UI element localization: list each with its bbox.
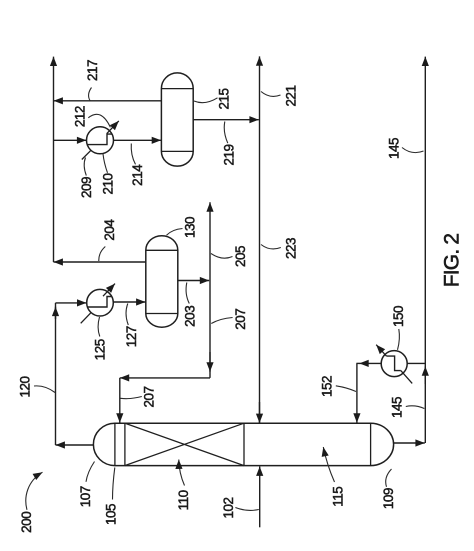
wire 219 vessel 215 outlet: [193, 119, 259, 121]
wire 125 inlet: [56, 302, 87, 304]
wire 221/223 riser: [259, 56, 261, 422]
drum vessel 105/115: [93, 423, 393, 465]
leader 105: [113, 468, 115, 500]
wire 217 horizontal: [54, 100, 162, 102]
svg-text:215: 215: [217, 88, 232, 109]
svg-text:209: 209: [79, 177, 94, 198]
leader 204: [99, 247, 106, 262]
leader arrow 115: [323, 447, 334, 482]
arrow 207 down on riser: [209, 352, 211, 372]
svg-text:150: 150: [391, 306, 406, 327]
U150 SE diagonal stub: [401, 371, 412, 384]
svg-text:125: 125: [93, 339, 108, 360]
svg-text:FIG. 2: FIG. 2: [441, 234, 464, 288]
leader 203: [186, 283, 189, 304]
wire 120 drum to corner: [56, 444, 94, 446]
leader 215: [194, 98, 218, 103]
vessel 215: [161, 73, 193, 166]
leader 221: [261, 92, 281, 97]
leader 130: [167, 229, 183, 236]
packing X section 110: [125, 423, 244, 465]
wire 212 inlet: [54, 139, 87, 141]
svg-text:115: 115: [331, 487, 346, 507]
svg-text:145: 145: [387, 138, 402, 159]
leader 205: [211, 254, 233, 259]
wire 145 riser: [424, 57, 426, 443]
wire U150 right branch: [407, 362, 425, 364]
U150 NW diagonal arrow: [376, 345, 386, 356]
arrow 120 up on riser: [55, 307, 57, 319]
svg-text:214: 214: [130, 164, 145, 186]
svg-text:221: 221: [284, 85, 299, 106]
leader 145 bottom: [406, 406, 425, 409]
U212 internal step: [87, 134, 112, 145]
svg-text:145: 145: [390, 397, 405, 418]
leader 212: [88, 114, 110, 127]
leader 102: [235, 508, 258, 511]
wire 214 outlet of U212: [114, 139, 162, 141]
heat exchanger U125 circle: [87, 289, 114, 316]
leader 150: [398, 329, 400, 350]
wire 207 horizontal: [120, 377, 210, 379]
wire 127 outlet of U125: [113, 301, 145, 303]
leader arrow 200: [26, 472, 43, 510]
leader 152: [336, 386, 356, 392]
svg-text:212: 212: [73, 106, 88, 127]
leader 209: [84, 158, 86, 176]
wire 102 feed: [259, 467, 261, 528]
leader arrow 110: [179, 460, 185, 486]
svg-text:130: 130: [183, 217, 198, 238]
leader 210: [103, 154, 108, 173]
svg-text:207: 207: [233, 309, 248, 330]
wire 203 vessel 130 outlet: [178, 280, 209, 282]
svg-text:223: 223: [284, 238, 299, 259]
svg-text:217: 217: [85, 60, 100, 81]
svg-text:205: 205: [233, 246, 248, 267]
U150 internal step: [386, 356, 400, 371]
svg-text:120: 120: [18, 376, 33, 397]
vessel 130: [146, 236, 178, 328]
svg-text:107: 107: [78, 486, 93, 507]
svg-text:210: 210: [101, 173, 116, 194]
wire 120 riser: [55, 303, 57, 445]
wire 152 drop into drum: [356, 363, 358, 422]
arrow 145 up on riser: [424, 366, 426, 384]
leader 214: [131, 144, 135, 165]
wire 207 drop into drum: [119, 378, 121, 423]
U212 NE diagonal arrow: [107, 121, 119, 134]
leader 127: [126, 304, 128, 326]
svg-text:204: 204: [102, 219, 117, 241]
svg-text:102: 102: [221, 497, 236, 518]
heat exchanger U212 circle: [87, 127, 114, 154]
svg-text:203: 203: [183, 306, 198, 327]
junction arrow 223 into drum: [259, 402, 261, 423]
wire riser left x53 (217/204): [53, 57, 55, 262]
leader 223: [261, 245, 281, 249]
leader 120: [34, 386, 55, 393]
leader 217: [89, 88, 92, 101]
svg-text:127: 127: [124, 326, 139, 347]
wire U150 left outlet: [359, 362, 381, 364]
svg-text:152: 152: [320, 376, 335, 397]
leader 145 top: [402, 148, 424, 153]
leader 207 right: [211, 318, 232, 324]
svg-text:200: 200: [19, 512, 34, 533]
svg-text:207: 207: [142, 386, 157, 407]
svg-text:110: 110: [176, 490, 191, 510]
leader 219: [224, 122, 228, 144]
U125 internal step: [87, 297, 112, 308]
svg-text:219: 219: [222, 144, 237, 165]
wire 204 horizontal: [54, 261, 146, 263]
U212 SW diagonal stub: [82, 151, 91, 160]
leader 109: [386, 469, 392, 487]
svg-text:109: 109: [381, 488, 396, 509]
wire drum right outlet: [394, 442, 425, 444]
U125 SW diagonal stub: [81, 313, 91, 323]
leader 125: [98, 317, 100, 337]
U125 NE diagonal arrow: [103, 284, 115, 297]
leader 207 left: [121, 397, 142, 399]
heat exchanger U150 circle: [381, 351, 407, 377]
wire 205/207 riser: [209, 202, 211, 378]
leader 107: [86, 462, 95, 482]
svg-text:105: 105: [104, 504, 119, 525]
